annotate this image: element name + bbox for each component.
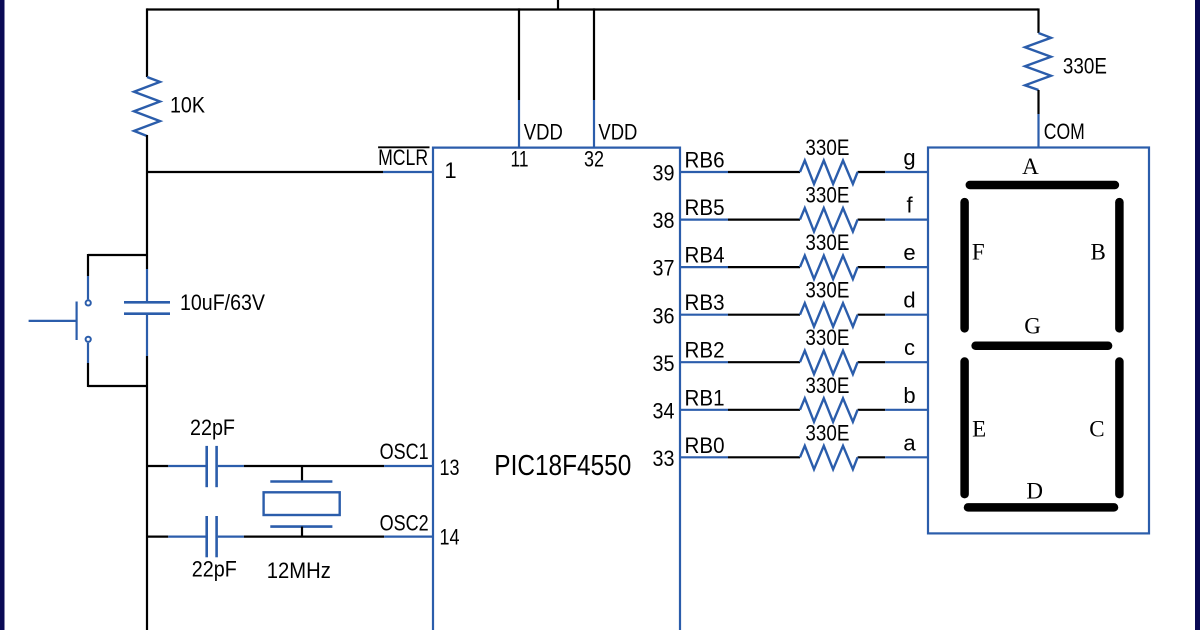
svg-text:VDD: VDD [598, 120, 637, 145]
svg-text:10uF/63V: 10uF/63V [180, 290, 265, 315]
svg-text:38: 38 [653, 208, 675, 233]
wire OSC2 net left [147, 535, 206, 537]
seven segment display box [928, 148, 1149, 534]
wire RB4 to segment e [653, 240, 929, 281]
svg-text:330E: 330E [1063, 54, 1107, 79]
svg-text:C: C [1089, 416, 1104, 441]
wire RB5 to segment f [653, 193, 929, 234]
svg-text:B: B [1091, 239, 1106, 264]
svg-text:c: c [904, 335, 915, 360]
svg-text:D: D [1026, 478, 1043, 503]
wire push button top branch [88, 254, 147, 299]
pin 13 OSC1 label [380, 439, 460, 480]
svg-text:d: d [903, 288, 915, 313]
crystal X1 12MHz [264, 466, 340, 583]
wire capacitor bottom lead [146, 314, 148, 356]
svg-text:OSC1: OSC1 [380, 439, 429, 464]
svg-text:RB4: RB4 [685, 243, 725, 268]
capacitor 10uF/63V [124, 290, 265, 315]
segment D bar [968, 503, 1114, 512]
svg-text:39: 39 [653, 161, 675, 186]
wire RB6 to segment g [653, 145, 929, 186]
segment B bar [1115, 202, 1124, 328]
resistor 330E row e [800, 230, 858, 279]
svg-text:E: E [972, 416, 986, 441]
wire push button bottom branch [88, 343, 147, 387]
resistor 330E row d [800, 278, 858, 327]
resistor 330E row g [800, 135, 858, 184]
wire OSC1 net right [218, 465, 433, 467]
wire OSC1 net left [147, 465, 206, 467]
resistor 330E row a [800, 420, 858, 469]
svg-text:e: e [903, 240, 915, 265]
wire RB3 to segment d [653, 288, 929, 329]
segment G bar [976, 342, 1109, 351]
op-amp U1 PIC18F4550 IC body [433, 148, 680, 630]
svg-text:RB6: RB6 [685, 148, 725, 173]
svg-text:OSC2: OSC2 [380, 511, 429, 536]
svg-text:COM: COM [1044, 119, 1085, 144]
svg-text:32: 32 [584, 147, 604, 172]
wire top supply rail [147, 8, 1038, 10]
push button SW1 [29, 300, 91, 342]
capacitor C2 22pF [192, 516, 237, 582]
segment F bar [960, 202, 969, 328]
svg-text:RB5: RB5 [685, 195, 725, 220]
segment E bar [960, 362, 969, 495]
svg-text:RB1: RB1 [685, 385, 725, 410]
resistor 330E COM [1025, 8, 1107, 90]
svg-text:12MHz: 12MHz [267, 558, 331, 583]
svg-text:13: 13 [440, 455, 460, 480]
svg-text:VDD: VDD [524, 120, 563, 145]
pin 1 MCLR label [378, 145, 457, 183]
wire RB1 to segment b [653, 383, 929, 424]
capacitor C1 22pF [190, 415, 235, 487]
svg-text:RB2: RB2 [685, 338, 725, 363]
svg-text:34: 34 [653, 398, 675, 423]
svg-text:f: f [906, 193, 913, 218]
wire MCLR net [147, 171, 433, 173]
svg-text:b: b [903, 383, 915, 408]
wire RB2 to segment c [653, 335, 929, 376]
wire left rail upper [146, 8, 148, 77]
svg-text:22pF: 22pF [190, 415, 235, 440]
svg-text:36: 36 [653, 303, 675, 328]
svg-text:330E: 330E [805, 325, 849, 350]
svg-text:35: 35 [653, 351, 675, 376]
svg-text:A: A [1022, 154, 1039, 179]
svg-text:14: 14 [440, 525, 460, 550]
resistor 330E row f [800, 183, 858, 232]
segment C bar [1115, 362, 1124, 495]
resistor 10K [134, 77, 205, 136]
svg-text:330E: 330E [805, 183, 849, 208]
svg-text:RB3: RB3 [685, 290, 725, 315]
wire capacitor top lead [146, 269, 148, 302]
wire left rail mid [146, 135, 148, 269]
wire OSC2 net right [218, 535, 433, 537]
svg-text:330E: 330E [805, 373, 849, 398]
resistor 330E row b [800, 373, 858, 422]
svg-text:37: 37 [653, 256, 675, 281]
svg-text:10K: 10K [170, 93, 205, 118]
wire VDD pin 11 [511, 8, 563, 171]
svg-text:a: a [903, 430, 916, 455]
svg-text:330E: 330E [805, 135, 849, 160]
node supply entry tick [557, 0, 559, 10]
svg-text:g: g [903, 145, 915, 170]
svg-text:330E: 330E [805, 420, 849, 445]
svg-text:MCLR: MCLR [378, 145, 428, 170]
svg-text:G: G [1024, 313, 1041, 338]
svg-text:1: 1 [444, 158, 456, 183]
wire RB0 to segment a [653, 430, 929, 471]
svg-text:33: 33 [653, 446, 675, 471]
svg-text:RB0: RB0 [685, 433, 725, 458]
svg-text:PIC18F4550: PIC18F4550 [494, 450, 631, 482]
wire left rail lower [146, 356, 148, 630]
svg-text:F: F [972, 239, 985, 264]
wire VDD pin 32 [584, 8, 637, 171]
svg-text:330E: 330E [805, 230, 849, 255]
pin 14 OSC2 label [380, 511, 460, 550]
svg-text:11: 11 [511, 147, 529, 172]
wire COM net [1039, 90, 1085, 148]
svg-text:330E: 330E [805, 278, 849, 303]
svg-text:22pF: 22pF [192, 557, 237, 582]
resistor 330E row c [800, 325, 858, 374]
segment A bar [970, 181, 1115, 190]
